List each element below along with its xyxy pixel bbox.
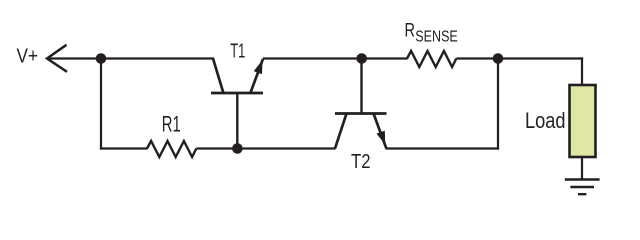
wire right vertical from tap node xyxy=(497,59,499,150)
V+ source arrow xyxy=(47,45,67,72)
load block xyxy=(570,85,596,157)
transistor T1 xyxy=(211,59,263,149)
wire bottom rail left segment xyxy=(100,147,148,149)
transistor T2 xyxy=(335,114,387,149)
node junction dot Kelvin tap to T2 emitter return xyxy=(493,53,504,64)
node junction dot V+ rail / left branch xyxy=(96,53,107,64)
wire top rail from V+ arrow to T1 collector xyxy=(47,57,214,59)
resistor R1 xyxy=(147,141,196,157)
svg-text:SENSE: SENSE xyxy=(415,28,458,45)
svg-text:T2: T2 xyxy=(351,151,371,173)
wire bottom rail right to T2 emitter xyxy=(386,147,500,149)
wire load to ground xyxy=(581,157,583,180)
svg-text:V+: V+ xyxy=(17,46,39,68)
wire top rail from T1 emitter to R_SENSE xyxy=(263,57,408,59)
svg-text:T1: T1 xyxy=(230,41,245,63)
svg-text:R: R xyxy=(405,20,416,41)
svg-text:R1: R1 xyxy=(162,111,181,136)
wire T2 base lead to tap node xyxy=(360,59,362,114)
node junction dot T2 base tap xyxy=(356,53,367,64)
svg-text:Load: Load xyxy=(525,108,566,133)
node junction dot T1 base / R1 / bottom rail xyxy=(232,143,243,154)
ground xyxy=(565,180,600,195)
resistor R_SENSE xyxy=(407,51,456,67)
wire top rail from R_SENSE to load branch xyxy=(456,57,583,59)
wire load drop from top rail xyxy=(581,57,583,86)
wire bottom rail middle segment xyxy=(196,147,335,149)
wire left vertical branch xyxy=(100,59,102,150)
